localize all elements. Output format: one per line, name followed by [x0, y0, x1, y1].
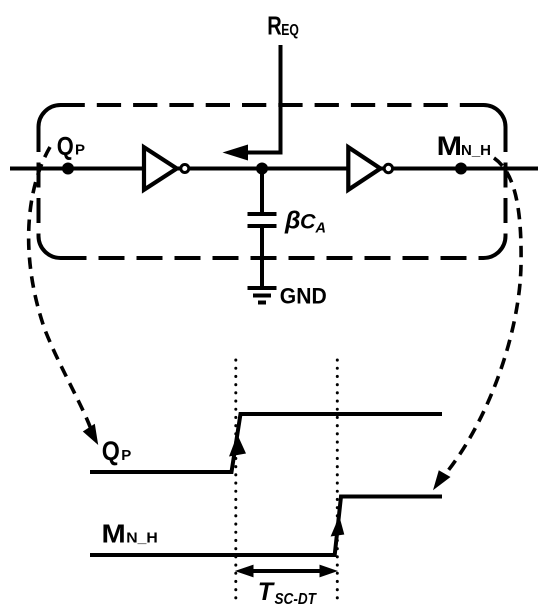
svg-text:EQ: EQ [281, 22, 299, 40]
svg-text:GND: GND [280, 283, 327, 309]
dotted timing marker line 1 [234, 360, 237, 600]
ground [248, 288, 277, 303]
svg-text:Q: Q [102, 437, 120, 467]
svg-text:P: P [75, 142, 85, 159]
dotted timing marker line 2 [336, 360, 339, 600]
wire REQ feed with arrow [244, 45, 281, 153]
resistor REQ label [267, 11, 299, 40]
svg-text:β: β [284, 207, 301, 235]
node QP [62, 163, 74, 175]
wire dashed arrow left to timing QP [29, 147, 92, 432]
svg-text:SC-DT: SC-DT [275, 591, 317, 608]
wire main horizontal [10, 167, 538, 171]
svg-text:N_H: N_H [126, 530, 157, 547]
svg-text:Q: Q [57, 132, 74, 161]
arrowhead QP edge [229, 435, 246, 457]
waveform MN_H [90, 497, 442, 556]
dimension arrow TSC-DT [250, 569, 324, 573]
svg-text:N_H: N_H [461, 142, 491, 159]
svg-text:A: A [315, 221, 326, 237]
op-amp inverter U1 [144, 147, 189, 190]
capacitor CA [248, 169, 277, 287]
wire dashed arrow right to timing MN_H [443, 158, 521, 477]
svg-text:M: M [102, 519, 126, 548]
dashed enclosure box [39, 105, 506, 258]
op-amp inverter U2 [348, 147, 392, 190]
waveform QP [90, 414, 442, 472]
arrowhead MN_H edge [331, 516, 345, 537]
svg-text:C: C [300, 210, 316, 234]
svg-text:M: M [437, 132, 462, 162]
node MN_H [455, 163, 467, 175]
svg-text:R: R [267, 11, 282, 40]
node center junction [256, 163, 268, 175]
svg-text:P: P [121, 447, 131, 464]
